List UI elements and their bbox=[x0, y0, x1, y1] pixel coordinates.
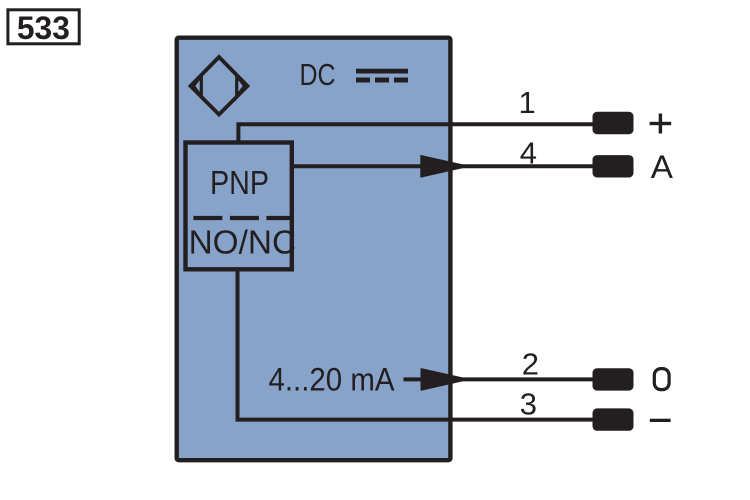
terminal 2 bbox=[593, 368, 634, 390]
arrow on wire 2 bbox=[421, 369, 469, 391]
PNP / NO-NC block bbox=[186, 143, 292, 270]
DC symbol bbox=[356, 69, 408, 83]
svg-text:533: 533 bbox=[17, 10, 70, 46]
terminal 3 bbox=[593, 408, 634, 430]
sensor symbol diamond bbox=[191, 57, 248, 115]
terminal 1 bbox=[593, 112, 634, 134]
svg-text:DC: DC bbox=[300, 58, 336, 92]
svg-text:1: 1 bbox=[519, 85, 536, 120]
terminal 4 bbox=[593, 155, 634, 177]
divider dashed line bbox=[193, 216, 291, 220]
svg-text:3: 3 bbox=[520, 387, 537, 422]
plus label bbox=[650, 114, 672, 134]
figure number box 533 bbox=[8, 10, 79, 46]
svg-text:4...20 mA: 4...20 mA bbox=[269, 362, 396, 398]
wire 3 bbox=[238, 269, 593, 420]
sensor body bbox=[177, 38, 451, 461]
minus label bbox=[650, 419, 671, 422]
wire 2 bbox=[404, 377, 593, 381]
svg-text:A: A bbox=[651, 149, 674, 185]
wire 4 bbox=[292, 164, 593, 168]
svg-text:PNP: PNP bbox=[210, 164, 269, 201]
wire 1 bbox=[238, 124, 592, 144]
svg-text:NO/NC: NO/NC bbox=[189, 225, 297, 262]
O label bbox=[654, 369, 669, 390]
svg-text:2: 2 bbox=[522, 347, 539, 382]
svg-text:4: 4 bbox=[520, 136, 537, 171]
arrow on wire 4 bbox=[421, 156, 469, 178]
